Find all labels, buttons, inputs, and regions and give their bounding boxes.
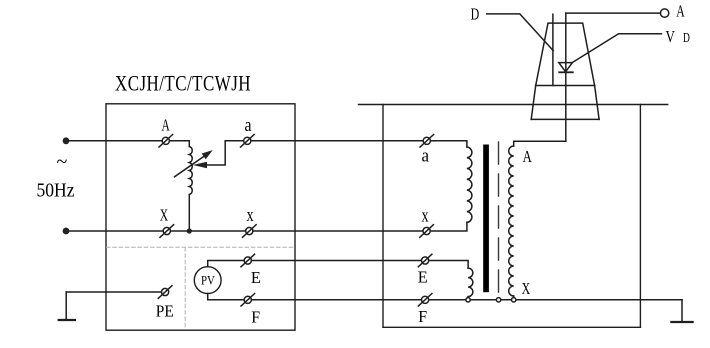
silicon stack rod D (552, 14, 554, 85)
node variac junction (187, 228, 192, 233)
wire bottom AC line from source to terminal X (66, 230, 162, 232)
svg-text:X: X (522, 279, 531, 298)
wire F bottom bus (251, 299, 682, 301)
terminal PE (158, 286, 172, 299)
bushing conductor (565, 13, 567, 141)
terminal x (variac) (243, 225, 257, 238)
wire ground to PE terminal (66, 291, 161, 293)
label pointer D (487, 14, 554, 51)
variac winding T1 (189, 147, 192, 195)
terminal x (transformer) (420, 225, 434, 238)
node source top (63, 137, 70, 144)
terminal E (left box) (241, 254, 255, 267)
transformer box (382, 105, 384, 328)
wire a terminal to LV winding (427, 141, 467, 147)
bushing upper body (536, 23, 595, 85)
wire transformer box top line (359, 104, 668, 106)
terminal A (variac) (159, 135, 173, 148)
wire conductor to terminal A top (566, 12, 661, 14)
svg-text:A: A (676, 2, 685, 21)
terminal F (left box) (241, 294, 255, 307)
core shield dashed line (498, 142, 500, 298)
voltmeter PV (194, 267, 221, 294)
svg-text:E: E (251, 268, 261, 287)
svg-text:V: V (666, 27, 676, 46)
terminal X (variac) (160, 225, 174, 238)
regulator box XCJH/TC/TCWJH (106, 104, 295, 330)
dashed divider horizontal (107, 246, 295, 248)
svg-text:X: X (160, 206, 168, 225)
svg-text:D: D (471, 5, 480, 24)
wire measuring winding bottom (467, 297, 469, 298)
svg-text:x: x (422, 206, 430, 226)
wire HV winding top to bushing conductor (514, 141, 566, 146)
wire E line between boxes (251, 260, 421, 262)
bushing lower body (531, 86, 536, 120)
svg-text:F: F (418, 307, 427, 326)
svg-text:a: a (245, 116, 252, 136)
ground right (681, 300, 683, 321)
LV winding a-x (467, 147, 472, 222)
svg-text:D: D (683, 31, 690, 46)
terminal E (transformer) (418, 254, 432, 267)
svg-text:50Hz: 50Hz (37, 181, 75, 202)
svg-text:E: E (418, 268, 428, 287)
terminal F (transformer) (418, 294, 432, 307)
label pointer VD (572, 34, 661, 63)
wire PV to terminal E (208, 261, 244, 267)
terminal a (transformer) (420, 135, 434, 148)
svg-text:a: a (422, 147, 430, 167)
wiper arrow (193, 162, 207, 169)
svg-text:x: x (247, 206, 255, 226)
wire E terminal to measuring winding (429, 261, 468, 269)
node shield bottom (496, 298, 500, 302)
wire variac coil bottom to bottom line (188, 195, 190, 232)
terminal a (variac) (241, 135, 255, 148)
diode VD (559, 63, 573, 72)
wire PV to terminal F (208, 294, 244, 300)
svg-text:F: F (251, 307, 260, 326)
svg-text:PV: PV (201, 273, 215, 288)
wire top AC line from source to terminal A (66, 140, 162, 142)
wire LV winding bottom to x terminal (427, 222, 467, 231)
svg-text:A: A (523, 147, 533, 166)
dashed divider vertical (184, 248, 186, 330)
svg-text:~: ~ (57, 151, 68, 173)
node source bottom (63, 228, 70, 235)
wire a line between boxes (251, 140, 423, 142)
wire HV winding bottom (513, 296, 515, 298)
variac arrow diagonal (175, 156, 205, 177)
wire X terminal to x terminal (170, 230, 245, 232)
node X terminal bottom (512, 298, 516, 302)
HV winding A-X (509, 146, 514, 296)
node measuring winding bottom (466, 298, 470, 302)
svg-text:A: A (162, 116, 171, 135)
terminal A top circle (660, 9, 668, 17)
svg-text:XCJH/TC/TCWJH: XCJH/TC/TCWJH (115, 71, 251, 96)
wire x line between boxes (253, 230, 423, 232)
core bar (483, 145, 489, 293)
wire terminal a to wiper (207, 141, 244, 165)
ground left (65, 292, 67, 319)
svg-text:PE: PE (156, 302, 174, 321)
measuring winding E-F (468, 268, 473, 297)
wire terminal A to variac coil top (169, 141, 189, 147)
